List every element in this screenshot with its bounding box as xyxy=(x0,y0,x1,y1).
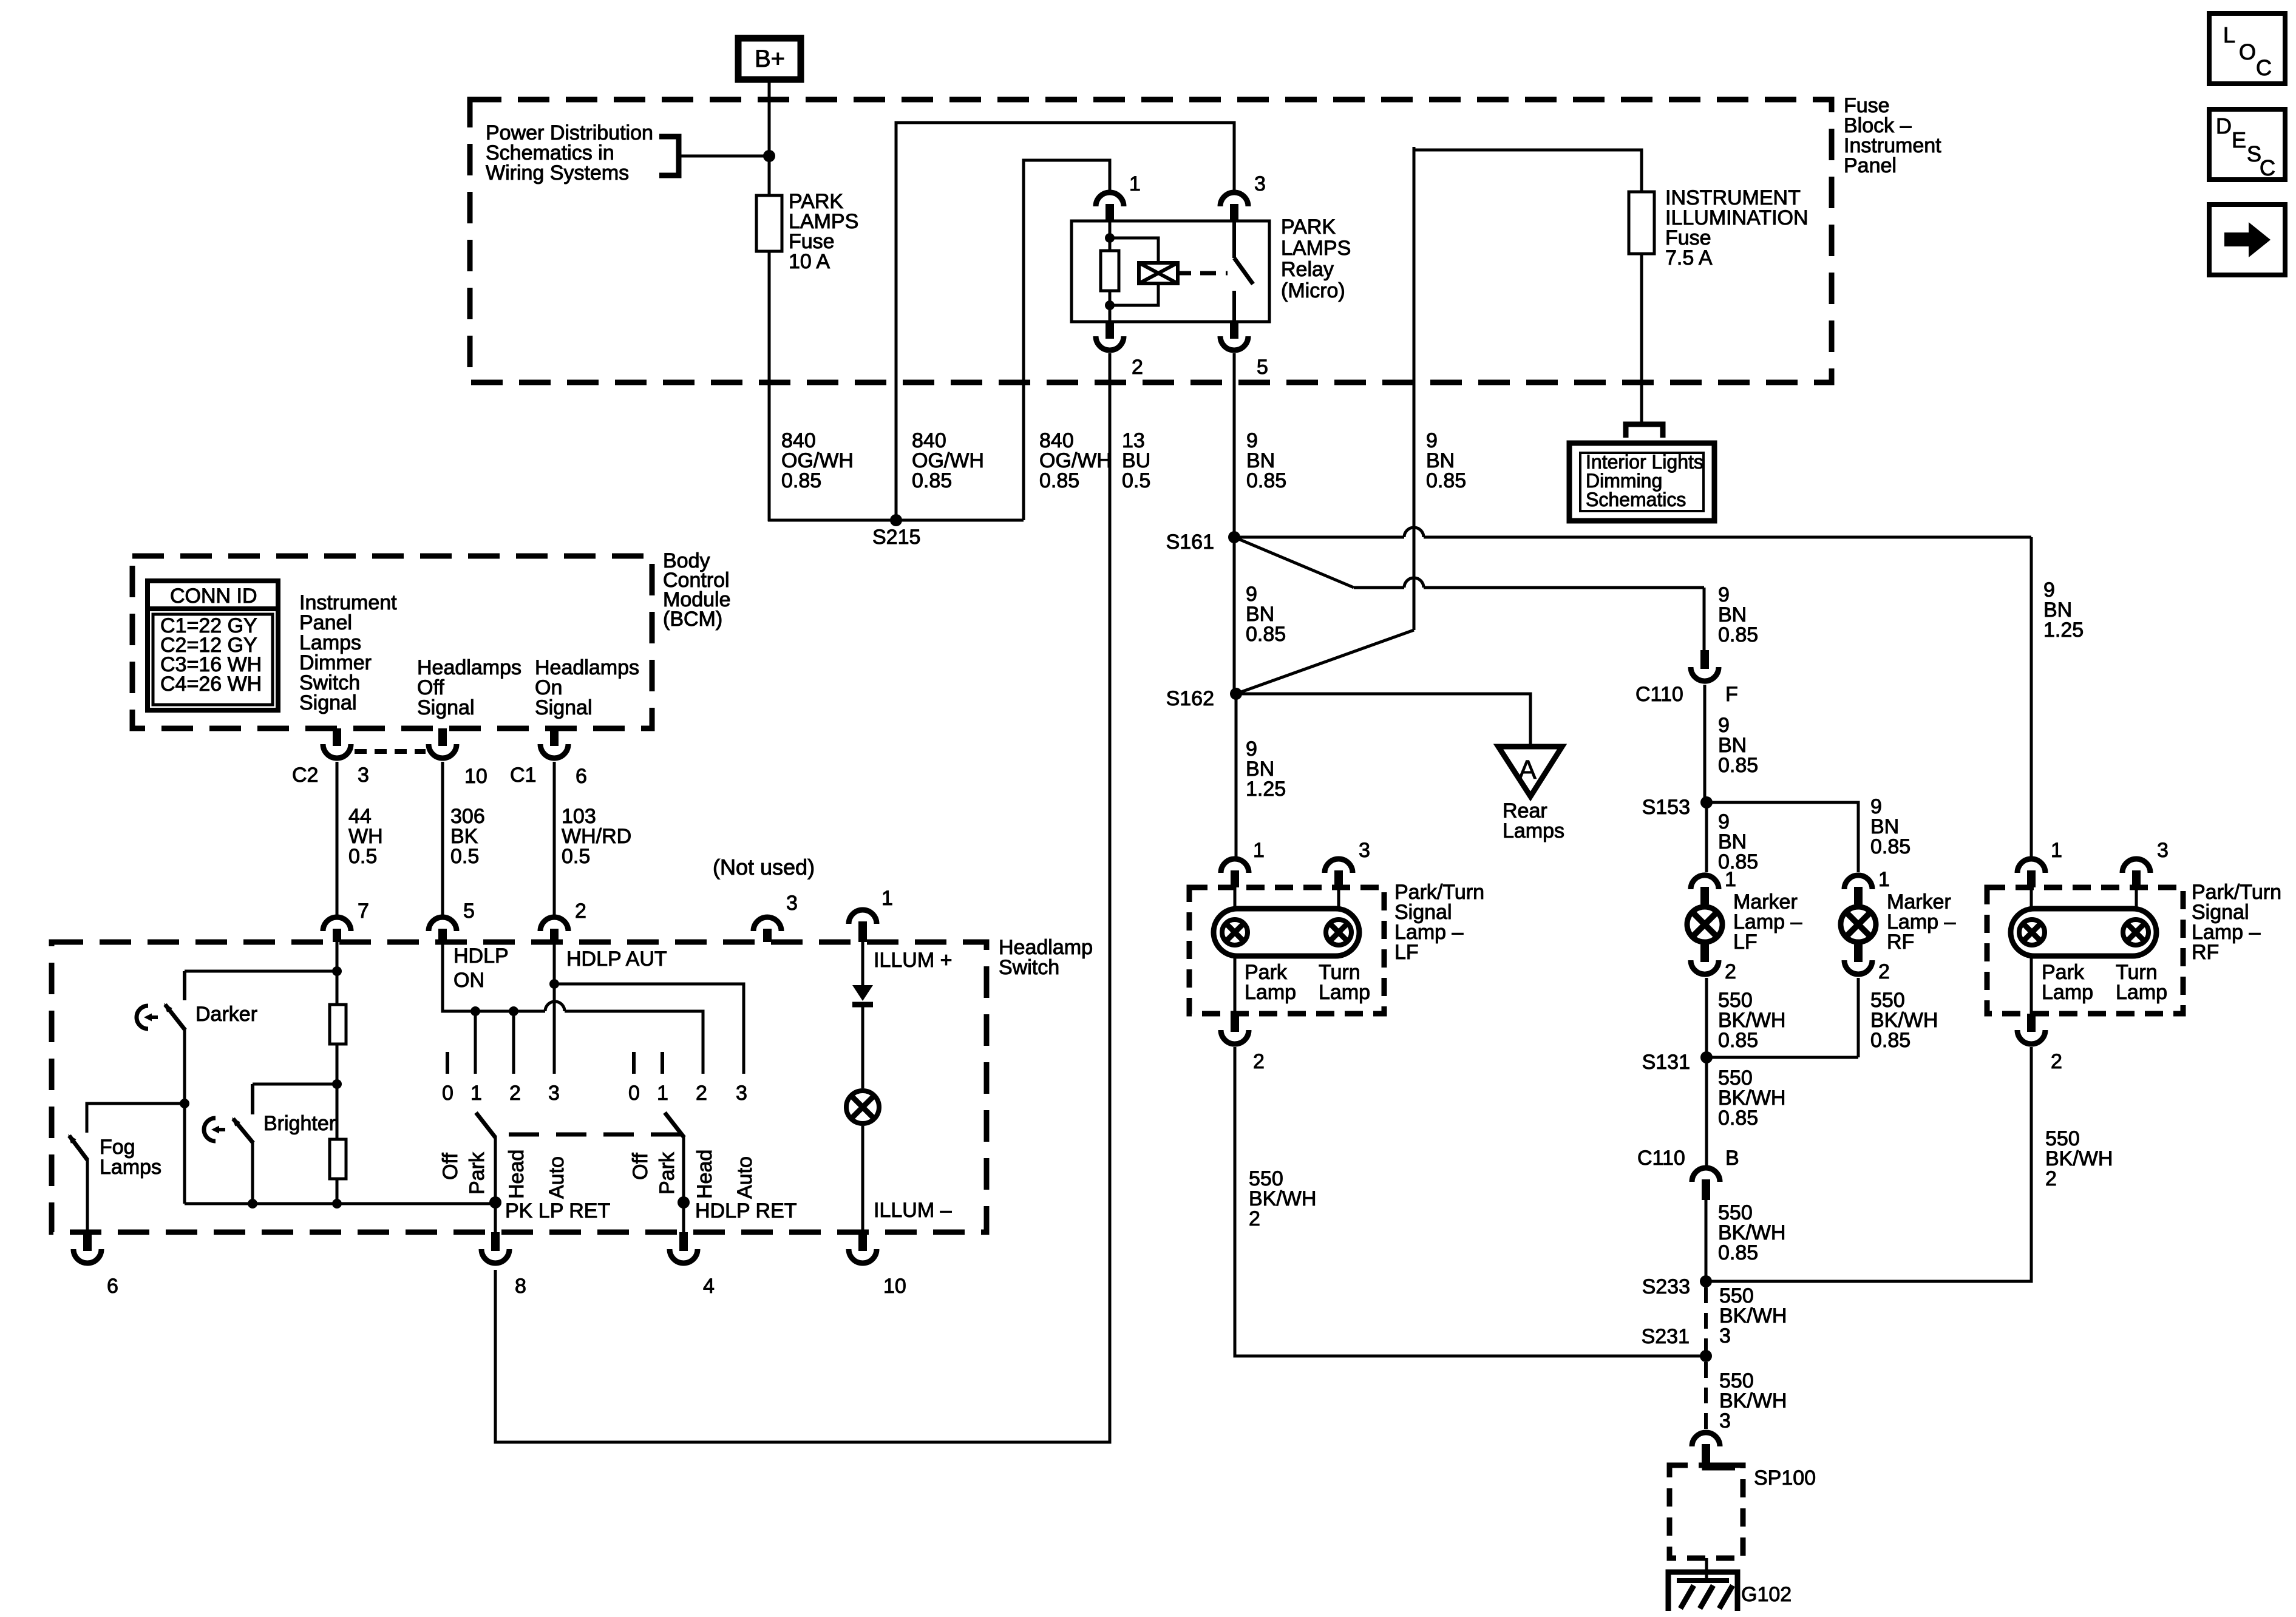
wire: diode to lamp xyxy=(861,1005,864,1088)
wire: blade to HDLP RET junction xyxy=(682,1136,685,1202)
svg-text:Lamp: Lamp xyxy=(2042,981,2093,1004)
svg-text:0.85: 0.85 xyxy=(1246,623,1286,646)
svg-text:3: 3 xyxy=(548,1082,560,1105)
svg-text:LF: LF xyxy=(1394,941,1419,964)
svg-text:S153: S153 xyxy=(1642,796,1690,819)
svg-text:3: 3 xyxy=(1359,839,1370,862)
dashed wire: S231 to SP100 xyxy=(1704,1362,1708,1431)
svg-text:3: 3 xyxy=(1254,172,1266,195)
svg-text:Panel: Panel xyxy=(1844,154,1897,177)
C110 F inline connector xyxy=(1700,650,1709,669)
mechanical link dashes to headlamp switch blade xyxy=(509,1133,683,1137)
dimmer resistor upper xyxy=(330,1005,346,1044)
wire: SP100 to ground xyxy=(1705,1558,1708,1579)
svg-text:1: 1 xyxy=(1253,839,1265,862)
fuse block dashed box (Fuse Block - Instrument Panel) xyxy=(470,100,1832,382)
darker switch blade xyxy=(165,1005,185,1030)
svg-text:1.25: 1.25 xyxy=(2043,619,2084,642)
wire: marker LF pin 2 to S131 xyxy=(1705,978,1708,1057)
turn lamp LF bulb xyxy=(1326,920,1351,945)
svg-text:Signal: Signal xyxy=(299,691,357,714)
svg-text:3: 3 xyxy=(358,764,369,787)
svg-text:0.85: 0.85 xyxy=(1426,469,1466,492)
terminal bracket to interior lights xyxy=(1626,424,1663,438)
hop over HDLP AUT wire xyxy=(545,1002,565,1011)
wire: S131 bus to marker RF drop xyxy=(1707,1056,1858,1059)
wire: marker RF pin 2 down to S131 bus xyxy=(1857,978,1860,1057)
fog lamps branch junction xyxy=(180,1099,189,1108)
svg-text:3: 3 xyxy=(736,1082,747,1105)
wire: bracket to B+ wire xyxy=(679,155,769,158)
wire 13 BU: relay pin 2 down, across to headlamp switch pin 8 wire xyxy=(495,353,1110,1442)
svg-text:Lamp: Lamp xyxy=(2116,981,2167,1004)
dashed wire: S233 to S231 xyxy=(1704,1287,1708,1351)
SP100 dashed box xyxy=(1669,1465,1743,1558)
svg-text:B+: B+ xyxy=(755,46,785,72)
svg-text:0.85: 0.85 xyxy=(1718,1107,1758,1130)
park lamps relay box xyxy=(1072,221,1269,322)
wire: HDLP RET to pin 4 xyxy=(682,1202,685,1232)
svg-text:C2: C2 xyxy=(292,764,318,787)
svg-text:B: B xyxy=(1725,1147,1739,1170)
svg-text:0.5: 0.5 xyxy=(348,845,377,868)
park/turn RF dashed box xyxy=(1987,887,2183,1014)
svg-text:ON: ON xyxy=(453,969,484,992)
wire: top of 9 BN riser over to instrument illumination fuse xyxy=(1414,147,1642,192)
switch pin 8 connector xyxy=(491,1232,500,1251)
wire: HDLP AUT over to auto contact riser xyxy=(554,984,744,1074)
svg-text:Park: Park xyxy=(466,1151,489,1195)
switch pin 2 connector xyxy=(540,917,568,931)
power distribution bracket xyxy=(659,137,679,175)
C110 B inline connector xyxy=(1692,1168,1720,1182)
svg-text:LF: LF xyxy=(1733,931,1758,954)
wire: fuse down to S215 xyxy=(768,251,771,521)
park lamp RF bulb xyxy=(2019,920,2045,945)
svg-text:8: 8 xyxy=(515,1275,526,1298)
PK LP RET junction dot xyxy=(489,1196,501,1209)
darker switch contact xyxy=(183,971,186,1000)
svg-text:LAMPS: LAMPS xyxy=(1281,237,1351,260)
wire: fog switch to pin 6 xyxy=(86,1159,89,1232)
wire: S153 to marker lamp RF drop xyxy=(1707,802,1858,872)
wire: S161 down to S162 xyxy=(1233,537,1236,694)
svg-text:0.5: 0.5 xyxy=(450,845,479,868)
svg-text:C1: C1 xyxy=(510,764,536,787)
S215 junction dot xyxy=(890,514,902,526)
svg-text:0.5: 0.5 xyxy=(1122,469,1150,492)
svg-text:4: 4 xyxy=(703,1275,715,1298)
switch pin 1 connector (ILLUM+) xyxy=(849,910,877,924)
svg-text:F: F xyxy=(1725,683,1738,706)
svg-text:1: 1 xyxy=(1129,172,1141,195)
BCM pin 6 connector (C1) xyxy=(550,728,559,746)
svg-text:PARK: PARK xyxy=(1281,215,1336,239)
wire: lamp to pin 10 xyxy=(861,1126,864,1232)
brighter switch blade xyxy=(233,1119,253,1143)
darker rotation hook xyxy=(137,1006,148,1029)
headlamp switch dashed box xyxy=(52,942,987,1232)
park/turn LF bulb housing xyxy=(1234,887,1237,909)
headlamp switch contact 1 xyxy=(661,1052,664,1074)
relay pin 2 connector xyxy=(1106,322,1114,339)
wire: pin 2 into switch, HDLP AUT junction xyxy=(553,942,556,1074)
wire: S215 up and over to relay pin 1 xyxy=(1024,160,1110,520)
svg-text:7: 7 xyxy=(358,900,369,923)
wire: pin 1 into switch to diode xyxy=(861,942,864,985)
svg-text:10: 10 xyxy=(464,765,487,788)
svg-text:Darker: Darker xyxy=(195,1003,257,1026)
svg-text:0.85: 0.85 xyxy=(781,469,821,492)
svg-text:Park: Park xyxy=(656,1151,679,1195)
marker lamp LF bulb xyxy=(1687,907,1722,942)
relay internal resistor xyxy=(1101,251,1119,291)
park lamp switch blade xyxy=(476,1113,495,1137)
svg-text:C110: C110 xyxy=(1637,1147,1685,1170)
park lamp LF bulb xyxy=(1222,920,1248,945)
svg-text:Signal: Signal xyxy=(535,696,593,719)
svg-text:Auto: Auto xyxy=(545,1156,568,1199)
svg-text:Brighter: Brighter xyxy=(263,1112,336,1135)
svg-text:2: 2 xyxy=(1132,356,1143,379)
wire: blade to PK LP RET junction xyxy=(494,1136,497,1202)
svg-text:1: 1 xyxy=(1725,868,1736,891)
svg-text:1.25: 1.25 xyxy=(1246,778,1286,801)
LOC legend box xyxy=(2209,13,2285,84)
park lamp switch contact 0 xyxy=(446,1052,449,1074)
svg-text:HDLP: HDLP xyxy=(453,944,509,968)
svg-text:(Not used): (Not used) xyxy=(713,855,815,880)
svg-text:E: E xyxy=(2232,127,2246,152)
svg-text:Relay: Relay xyxy=(1281,258,1334,281)
switch pin 7 connector xyxy=(323,917,351,931)
svg-text:2: 2 xyxy=(2051,1050,2062,1073)
relay pin 3 connector xyxy=(1220,192,1248,206)
headlamp switch blade xyxy=(665,1113,684,1137)
wire: S162 to rear lamps arrow xyxy=(1236,694,1530,747)
svg-text:3: 3 xyxy=(786,892,798,915)
wire: pin 5 into switch, HDLP ON feed xyxy=(443,942,545,1011)
wire: PK LP RET to pin 8 xyxy=(494,1202,497,1232)
marker lamp RF pin 2 connector xyxy=(1854,944,1863,962)
switch pin 6 connector xyxy=(83,1232,92,1251)
wire: darker blade down to return bus xyxy=(183,1029,186,1204)
svg-text:0: 0 xyxy=(442,1082,453,1105)
svg-text:10 A: 10 A xyxy=(789,250,830,273)
svg-text:G102: G102 xyxy=(1741,1583,1792,1606)
headlamp switch contact 0 xyxy=(632,1052,636,1074)
wire: S153 down to marker lamp LF xyxy=(1705,802,1708,872)
interior lights dimming schematics box xyxy=(1569,443,1714,521)
wire: junction to fog switch xyxy=(87,1103,185,1133)
svg-text:Off: Off xyxy=(629,1153,652,1180)
svg-text:0.85: 0.85 xyxy=(912,469,952,492)
wire 550 BK/WH 2: RF pin 2 down and left to S233 xyxy=(1706,1047,2031,1281)
svg-text:3: 3 xyxy=(2157,839,2169,862)
park/turn RF pin 2 connector xyxy=(2030,956,2033,1014)
svg-text:0.5: 0.5 xyxy=(562,845,590,868)
svg-text:0.85: 0.85 xyxy=(1039,469,1079,492)
relay internal: pin1 wire and junction dots xyxy=(1109,221,1112,251)
svg-text:1: 1 xyxy=(1878,868,1890,891)
svg-text:2: 2 xyxy=(2045,1167,2057,1190)
svg-text:1: 1 xyxy=(657,1082,668,1105)
svg-text:Lamps: Lamps xyxy=(100,1156,161,1179)
park/turn RF bulb housing xyxy=(2030,887,2033,909)
turn lamp RF bulb xyxy=(2123,920,2148,945)
wire: riser from (2329,247) down to diagonal into S162 xyxy=(1413,147,1416,630)
wire: S161 horizontal to park/turn RF riser (with hop) xyxy=(1234,536,1404,539)
relay pin 5 connector xyxy=(1230,322,1238,339)
junction dot on B+ wire xyxy=(763,150,775,162)
S161 junction dot xyxy=(1228,531,1240,543)
switch pin 3 connector (not used) xyxy=(753,917,781,931)
S215 splice bus xyxy=(768,519,1024,522)
svg-text:6: 6 xyxy=(576,765,587,788)
svg-text:C4=26 WH: C4=26 WH xyxy=(160,673,262,696)
svg-text:3: 3 xyxy=(1719,1409,1731,1432)
svg-text:(Micro): (Micro) xyxy=(1281,279,1345,302)
relay coil (box with X) xyxy=(1139,263,1178,283)
svg-text:1: 1 xyxy=(881,887,893,910)
svg-text:L: L xyxy=(2223,22,2235,47)
svg-text:3: 3 xyxy=(1719,1324,1731,1347)
CONN ID table xyxy=(148,581,278,710)
connector link dashes C2-C1 xyxy=(355,749,426,754)
svg-text:Switch: Switch xyxy=(999,956,1059,979)
relay switch contact xyxy=(1232,221,1236,258)
svg-text:0.85: 0.85 xyxy=(1870,835,1911,858)
svg-text:O: O xyxy=(2239,39,2256,64)
wire: pin 7 into switch, junction xyxy=(336,942,339,1005)
svg-text:Lamps: Lamps xyxy=(1503,819,1564,842)
wire: S162 down to park/turn LF pin 1 xyxy=(1235,694,1238,859)
svg-text:1: 1 xyxy=(2051,839,2062,862)
HDLP ON feed to head contact riser xyxy=(565,1011,703,1074)
wire: B+ down to fuse xyxy=(768,80,771,195)
HDLP RET junction dot xyxy=(678,1196,690,1209)
next-page arrow box xyxy=(2209,205,2285,275)
wire: S215 up and over to relay pin 3 xyxy=(896,123,1234,520)
brighter rotation hook xyxy=(204,1118,216,1141)
wire 9 BN: relay pin 5 down to S161 xyxy=(1233,353,1236,537)
park/turn LF pin 1 connector xyxy=(1221,859,1249,873)
relay coil to contact link xyxy=(1178,271,1191,276)
wire: junction to darker switch contact xyxy=(185,970,337,973)
body control module dashed box xyxy=(132,556,652,728)
park/turn RF pin 1 connector xyxy=(2017,859,2045,873)
svg-text:2: 2 xyxy=(509,1082,521,1105)
wire: tap to brighter switch contact xyxy=(253,1083,337,1086)
fuse INSTRUMENT ILLUMINATION 7.5A xyxy=(1629,192,1654,254)
svg-text:Wiring Systems: Wiring Systems xyxy=(486,161,629,185)
svg-text:C110: C110 xyxy=(1635,683,1683,706)
DESC legend box xyxy=(2209,109,2285,180)
svg-text:Lamp: Lamp xyxy=(1319,981,1370,1004)
svg-text:CONN ID: CONN ID xyxy=(170,585,257,608)
illumination lamp bulb xyxy=(846,1091,879,1124)
wire: C110 F to S153 xyxy=(1703,685,1707,802)
switch pin 10 connector xyxy=(858,1232,867,1251)
marker lamp RF bulb xyxy=(1841,907,1876,942)
svg-text:0.85: 0.85 xyxy=(1718,850,1758,873)
wire: C110 B to S233 xyxy=(1705,1200,1708,1281)
svg-text:0.85: 0.85 xyxy=(1718,1241,1758,1264)
svg-text:7.5 A: 7.5 A xyxy=(1665,246,1713,269)
svg-text:0.85: 0.85 xyxy=(1870,1029,1911,1052)
S231 junction dot xyxy=(1700,1350,1712,1362)
ground symbol G102 xyxy=(1668,1572,1737,1611)
wire 103 WH/RD 0.5: BCM pin 6 to switch pin 2 xyxy=(553,762,556,917)
svg-text:S215: S215 xyxy=(872,526,920,549)
S162 junction dot xyxy=(1230,688,1242,700)
dimmer resistor lower xyxy=(330,1139,346,1179)
marker lamp LF pin 1 connector xyxy=(1691,875,1719,889)
svg-text:S131: S131 xyxy=(1642,1051,1690,1074)
svg-text:ILLUM +: ILLUM + xyxy=(874,949,952,972)
fog lamps switch blade xyxy=(69,1136,87,1160)
svg-text:0: 0 xyxy=(628,1082,640,1105)
park/turn LF dashed box xyxy=(1189,887,1384,1014)
wire: resistor to tap junction xyxy=(336,1044,339,1139)
svg-text:Head: Head xyxy=(505,1150,528,1199)
HDLP head contact riser (from HDLP ON) xyxy=(702,1011,705,1074)
svg-text:(BCM): (BCM) xyxy=(663,608,722,631)
head contact riser xyxy=(512,1011,515,1074)
dimmer return bus xyxy=(185,1202,495,1205)
wire 44 WH 0.5: BCM pin 3 to switch pin 7 xyxy=(336,762,339,917)
wire 306 BK 0.5: BCM pin 10 to switch pin 5 xyxy=(441,762,444,917)
svg-text:Signal: Signal xyxy=(417,696,475,719)
svg-text:S231: S231 xyxy=(1642,1325,1690,1348)
wire: fuse down to interior lights terminal xyxy=(1640,254,1643,423)
svg-text:RF: RF xyxy=(2192,941,2219,964)
svg-text:Schematics: Schematics xyxy=(1586,489,1686,510)
svg-text:2: 2 xyxy=(1253,1050,1265,1073)
park/turn LF pin 2 connector xyxy=(1234,956,1237,1014)
svg-text:5: 5 xyxy=(1257,356,1268,379)
svg-text:C: C xyxy=(2256,55,2272,80)
svg-text:2: 2 xyxy=(1878,960,1890,983)
wire: down to C110 F xyxy=(1703,588,1706,650)
svg-text:2: 2 xyxy=(1725,960,1736,983)
park/turn RF pin 3 connector xyxy=(2122,859,2150,873)
svg-text:S233: S233 xyxy=(1642,1275,1690,1298)
svg-text:10: 10 xyxy=(883,1275,906,1298)
wire: brighter blade down to return bus xyxy=(251,1142,254,1204)
park contact riser xyxy=(474,1011,477,1074)
svg-text:RF: RF xyxy=(1887,931,1914,954)
svg-text:5: 5 xyxy=(463,900,475,923)
svg-text:Lamp: Lamp xyxy=(1245,981,1296,1004)
svg-text:S161: S161 xyxy=(1166,531,1214,554)
svg-text:1: 1 xyxy=(470,1082,482,1105)
svg-text:PK LP RET: PK LP RET xyxy=(505,1199,610,1222)
wire 550 BK/WH 2: LF pin 2 down and right to S231 xyxy=(1235,1047,1706,1356)
S131 junction dot xyxy=(1700,1051,1713,1063)
brighter switch contact xyxy=(251,1084,254,1114)
fuse PARK LAMPS 10A xyxy=(756,195,782,251)
park/turn LF pin 3 connector xyxy=(1325,859,1353,873)
wire: S161 diagonal branch to C110 F feed (with hop) xyxy=(1234,537,1354,588)
wire: lower resistor to return bus xyxy=(336,1179,339,1204)
svg-text:SP100: SP100 xyxy=(1754,1466,1816,1490)
switch pin 5 connector xyxy=(429,917,457,931)
rear lamps reference triangle A xyxy=(1498,747,1562,796)
svg-text:0.85: 0.85 xyxy=(1718,754,1758,777)
svg-text:2: 2 xyxy=(575,900,586,923)
svg-text:A: A xyxy=(1518,755,1537,785)
svg-text:Head: Head xyxy=(693,1150,716,1199)
relay pin 1 connector xyxy=(1096,192,1124,206)
illumination diode xyxy=(852,985,873,1001)
svg-text:ILLUM –: ILLUM – xyxy=(874,1199,952,1222)
SP100 splice pack connector xyxy=(1692,1432,1720,1446)
S233 junction dot xyxy=(1700,1275,1712,1287)
svg-text:C: C xyxy=(2260,155,2275,180)
svg-text:0.85: 0.85 xyxy=(1246,469,1286,492)
svg-text:HDLP RET: HDLP RET xyxy=(695,1199,797,1222)
marker lamp RF pin 1 connector xyxy=(1844,875,1872,889)
svg-text:0.85: 0.85 xyxy=(1718,623,1758,646)
svg-text:2: 2 xyxy=(1249,1207,1260,1230)
svg-text:D: D xyxy=(2216,114,2232,138)
svg-text:6: 6 xyxy=(107,1275,118,1298)
BCM pin 10 connector xyxy=(438,728,447,746)
wire elbow into SP100 xyxy=(1706,1460,1735,1466)
switch pin 4 connector xyxy=(679,1232,688,1251)
svg-text:2: 2 xyxy=(696,1082,707,1105)
wire: 9 BN 1.25 riser down to park/turn RF pin 1 xyxy=(2030,537,2033,859)
relay internal coil branch wires xyxy=(1110,238,1158,263)
svg-text:HDLP AUT: HDLP AUT xyxy=(566,947,667,971)
B+ battery feed symbol xyxy=(738,38,801,80)
BCM pin 3 connector (C2) xyxy=(333,728,341,746)
svg-text:0.85: 0.85 xyxy=(1718,1029,1758,1052)
svg-text:Auto: Auto xyxy=(733,1156,756,1199)
S153 junction dot xyxy=(1700,796,1713,808)
svg-text:S162: S162 xyxy=(1166,687,1214,710)
wire: S131 down to C110 B xyxy=(1705,1057,1708,1167)
marker lamp LF pin 2 connector xyxy=(1700,944,1709,962)
svg-text:Off: Off xyxy=(439,1153,462,1180)
